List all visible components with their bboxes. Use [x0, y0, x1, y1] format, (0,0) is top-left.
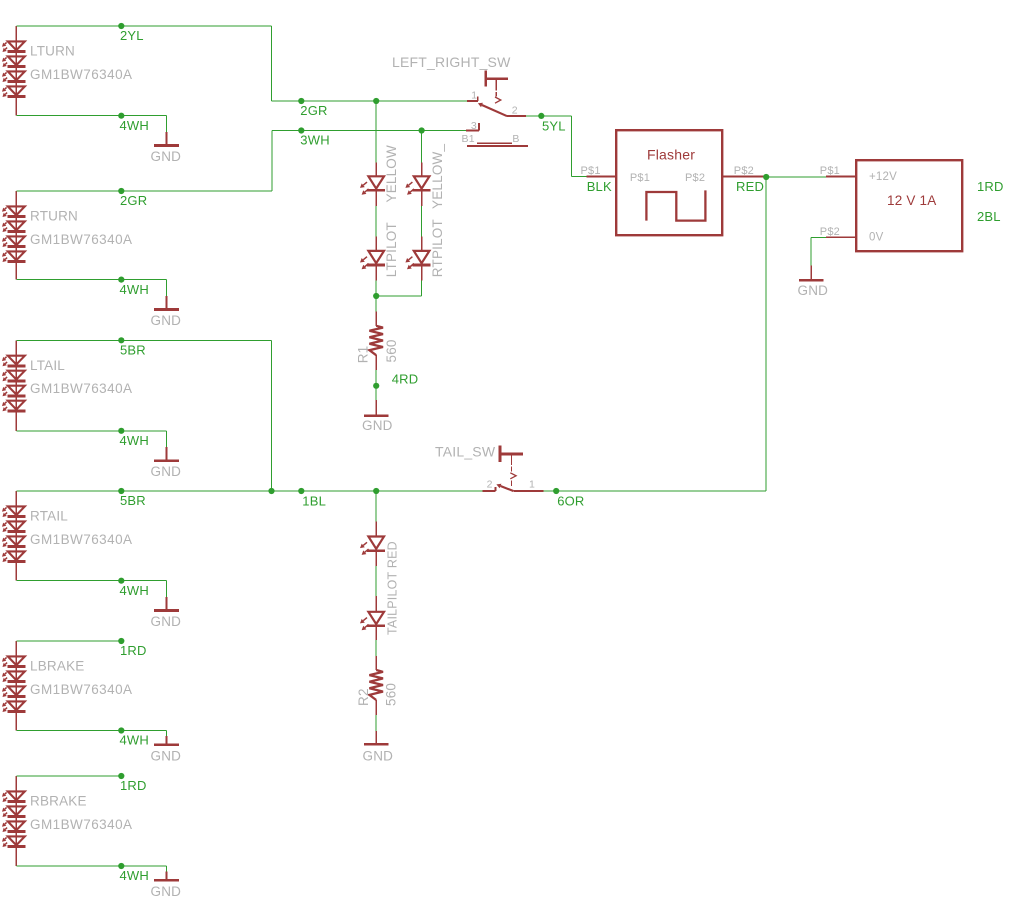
LTAIL LED 1	[8, 356, 25, 365]
wire supply P$2 to ground	[811, 236, 826, 238]
svg-text:4WH: 4WH	[120, 282, 150, 297]
TAIL_SW actuator chevron	[510, 473, 516, 479]
LEFT_RIGHT_SW actuator stem	[495, 79, 497, 91]
svg-text:GND: GND	[151, 313, 182, 328]
ground symbol GND at LBRAKE	[154, 743, 179, 746]
wire LTPILOT to junction	[375, 281, 377, 296]
TAIL_SW pin 2 contact tick	[495, 487, 497, 491]
LED module LTURN GM1BW76340A symbol pin line	[15, 26, 17, 116]
svg-text:P$1: P$1	[581, 165, 601, 177]
ground symbol GND below R2	[364, 743, 389, 746]
wire net 4WH bottom of LTURN	[16, 115, 166, 117]
svg-text:GND: GND	[151, 149, 182, 164]
wire 4WH drop to ground at RTURN	[166, 280, 168, 296]
svg-text:P$1: P$1	[630, 172, 650, 184]
svg-text:5YL: 5YL	[542, 118, 566, 133]
ground symbol GND at RTAIL	[154, 609, 179, 612]
LTURN LED 1	[8, 41, 25, 50]
svg-text:560: 560	[384, 339, 399, 362]
wire net 3WH horizontal to LEFT_RIGHT_SW pin 3	[272, 130, 466, 132]
wire riser LTAIL 5BR down to tail row	[271, 340, 273, 491]
node junction tailpilot column on tail row	[373, 488, 379, 494]
wire net 4WH bottom of RTURN	[16, 279, 166, 281]
svg-text:P$2: P$2	[685, 172, 705, 184]
pin R2 top	[375, 656, 377, 670]
svg-text:LBRAKE: LBRAKE	[30, 659, 84, 674]
node junction LTAIL riser on tail row	[268, 488, 274, 494]
TAIL_SW pin 1 stub	[513, 490, 543, 492]
node junction yellow pilot column top	[373, 98, 379, 104]
LEFT_RIGHT_SW actuator dash	[495, 92, 497, 96]
node 6OR label dot	[553, 488, 559, 494]
wire net 5YL from LEFT_RIGHT_SW pin 2	[526, 115, 571, 117]
wire riser LTURN 2YL to left-switch net	[271, 26, 273, 101]
node 4WH label dot at RBRAKE bottom	[118, 863, 124, 869]
RTAIL LED 3	[8, 536, 25, 545]
wire 5YL into Flasher P$1	[571, 176, 586, 178]
ground symbol GND at LTAIL	[154, 459, 179, 462]
LTURN LED 4	[8, 86, 25, 95]
wire ground drop at supply	[810, 237, 812, 265]
node 4RD label dot	[373, 383, 379, 389]
node 3WH label dot	[298, 127, 304, 133]
svg-text:GND: GND	[363, 748, 394, 763]
svg-text:3WH: 3WH	[300, 133, 330, 148]
wire 4WH drop to ground at LBRAKE	[166, 731, 168, 737]
svg-text:BLK: BLK	[587, 179, 612, 194]
RBRAKE LED 3	[8, 821, 25, 830]
wire yellow_ column from 3WH net down	[421, 131, 423, 163]
TAIL_SW pin 2 stub	[483, 490, 496, 492]
svg-text:R1: R1	[356, 346, 371, 364]
svg-text:1: 1	[529, 479, 535, 491]
svg-text:1RD: 1RD	[977, 179, 1004, 194]
LED module RBRAKE GM1BW76340A symbol pin line	[15, 776, 17, 866]
svg-text:GND: GND	[798, 283, 829, 298]
wire between YELLOW and LTPILOT	[375, 206, 377, 236]
LED LTPILOT (left pilot bottom)	[368, 251, 384, 263]
wire 4WH drop to ground at LTAIL	[166, 431, 168, 447]
node 2GR label dot	[298, 98, 304, 104]
svg-text:YELLOW: YELLOW	[384, 145, 399, 203]
svg-text:2GR: 2GR	[300, 103, 327, 118]
RTURN LED 4	[8, 251, 25, 260]
svg-text:1RD: 1RD	[120, 778, 147, 793]
pin below LED YELLOW	[375, 190, 377, 206]
svg-text:4WH: 4WH	[120, 733, 150, 748]
wire yellow column from 2GR net down	[375, 101, 377, 163]
RTURN LED 1	[8, 206, 25, 215]
svg-text:GND: GND	[362, 418, 393, 433]
ground symbol GND at RBRAKE	[154, 879, 179, 882]
ground symbol GND below R1	[364, 414, 389, 417]
ground pin LTURN	[166, 132, 168, 145]
svg-text:RBRAKE: RBRAKE	[30, 794, 87, 809]
ground pin RBRAKE	[166, 872, 168, 880]
ground pin LBRAKE	[166, 736, 168, 744]
wire net 2GR horizontal to LEFT_RIGHT_SW pin 1	[272, 100, 468, 102]
wire net 4WH bottom of LTAIL	[16, 430, 166, 432]
svg-text:1RD: 1RD	[120, 643, 147, 658]
svg-text:TAIL_SW: TAIL_SW	[435, 444, 496, 460]
pin below upper TAILPILOT LED	[375, 551, 377, 566]
ground pin RTAIL	[166, 597, 168, 610]
pin below LED RTPILOT	[421, 265, 423, 281]
pin R1 bottom	[375, 355, 377, 370]
LED module LBRAKE GM1BW76340A symbol pin line	[15, 641, 17, 731]
node 1BL label dot	[298, 488, 304, 494]
RTAIL LED 2	[8, 521, 25, 530]
node 5YL label dot	[538, 113, 544, 119]
Flasher square wave glyph	[646, 190, 705, 220]
LEFT_RIGHT_SW base line	[467, 145, 528, 147]
LEFT_RIGHT_SW pin 1 contact tick	[477, 97, 479, 101]
RTURN LED 3	[8, 236, 25, 245]
svg-text:2: 2	[512, 105, 518, 117]
pin of LED RTPILOT	[421, 236, 423, 250]
svg-text:4WH: 4WH	[120, 118, 150, 133]
svg-text:4RD: 4RD	[392, 371, 419, 386]
LEFT_RIGHT_SW actuator bar	[484, 71, 487, 87]
RBRAKE LED 4	[8, 836, 25, 845]
wire tail row down to TAILPILOT	[375, 491, 377, 521]
ground symbol GND at RTURN	[154, 308, 179, 311]
pin below LED YELLOW_	[421, 190, 423, 206]
wire net 4WH bottom of RTAIL	[16, 580, 166, 582]
wire riser RTURN to right-switch net	[271, 131, 273, 192]
svg-text:LEFT_RIGHT_SW: LEFT_RIGHT_SW	[392, 54, 511, 70]
svg-text:5BR: 5BR	[120, 493, 146, 508]
svg-text:2: 2	[487, 479, 493, 491]
ground symbol GND at LTURN	[154, 144, 179, 147]
node junction Flasher P$2 / RED	[763, 174, 769, 180]
LEFT_RIGHT_SW B1-B link line	[477, 142, 512, 144]
wire tail row net 1BL/5BR to TAIL_SW pin 2	[16, 490, 482, 492]
Flasher pin P$1 stub	[587, 176, 617, 178]
svg-text:GM1BW76340A: GM1BW76340A	[30, 682, 133, 697]
svg-text:GND: GND	[151, 614, 182, 629]
wire net 5BR top of LTAIL	[16, 339, 271, 341]
supply pin P$1 stub	[826, 176, 856, 178]
ground pin RTURN	[166, 296, 168, 309]
node junction yellow_ pilot column top	[419, 127, 425, 133]
LED TAILPILOT lower	[368, 612, 384, 624]
svg-text:Flasher: Flasher	[647, 147, 695, 163]
LBRAKE LED 1	[8, 656, 25, 665]
svg-text:3: 3	[471, 120, 477, 132]
wire TAILPILOT to R2	[375, 640, 377, 656]
LBRAKE LED 3	[8, 686, 25, 695]
svg-text:GM1BW76340A: GM1BW76340A	[30, 232, 133, 247]
node 4WH label dot at RTAIL bottom	[118, 578, 124, 584]
wire net 2YL top of LTURN	[16, 25, 271, 27]
wire net RED to supply P$1	[766, 176, 826, 178]
component Flasher box	[616, 130, 722, 235]
resistor R1 560	[369, 326, 383, 355]
ground pin below R2	[375, 731, 377, 744]
svg-text:GND: GND	[151, 749, 182, 764]
LED TAILPILOT upper (RED)	[368, 537, 384, 549]
svg-text:P$2: P$2	[734, 165, 754, 177]
svg-text:GND: GND	[151, 884, 182, 899]
svg-text:RTURN: RTURN	[30, 209, 78, 224]
LEFT_RIGHT_SW pin 3 stub	[466, 130, 479, 132]
LTURN LED 2	[8, 56, 25, 65]
svg-text:RTAIL: RTAIL	[30, 509, 68, 524]
wire net 2GR top of RTURN	[16, 190, 272, 192]
svg-text:YELLOW_: YELLOW_	[430, 144, 445, 209]
svg-text:2GR: 2GR	[120, 193, 147, 208]
wire 4WH drop to ground at LTURN	[166, 116, 168, 132]
svg-text:LTURN: LTURN	[30, 44, 75, 59]
TAIL_SW throw arm	[500, 486, 513, 491]
pin R2 bottom	[375, 700, 377, 715]
RBRAKE LED 2	[8, 806, 25, 815]
svg-text:GM1BW76340A: GM1BW76340A	[30, 381, 133, 396]
pin of LED TAILPILOT lower	[375, 596, 377, 611]
svg-text:4WH: 4WH	[120, 583, 150, 598]
svg-text:B1: B1	[462, 133, 475, 145]
LTAIL LED 2	[8, 371, 25, 380]
pin below lower TAILPILOT LED	[375, 626, 377, 640]
svg-text:0V: 0V	[869, 231, 884, 243]
ground pin at supply	[810, 266, 812, 280]
wire joining pilot columns	[376, 295, 421, 297]
TAIL_SW actuator stem	[511, 454, 513, 465]
wire net 6OR from TAIL_SW pin 1 to flasher riser	[544, 490, 767, 492]
LED RTPILOT (right pilot bottom)	[414, 251, 430, 263]
wire riser 6OR up to Flasher P$2 node	[765, 177, 767, 491]
svg-text:GM1BW76340A: GM1BW76340A	[30, 817, 133, 832]
RTAIL LED 1	[8, 506, 25, 515]
wire R2 to ground	[375, 715, 377, 731]
pin of LED YELLOW	[375, 163, 377, 176]
svg-text:GM1BW76340A: GM1BW76340A	[30, 532, 133, 547]
svg-text:RED: RED	[736, 179, 764, 194]
wire net 4WH bottom of RBRAKE	[16, 865, 166, 867]
wire net 1RD top of LBRAKE	[16, 640, 121, 642]
svg-text:GND: GND	[151, 464, 182, 479]
LBRAKE LED 4	[8, 701, 25, 710]
TAIL_SW actuator bar	[499, 445, 502, 462]
node 1RD label dot at LBRAKE top	[118, 638, 124, 644]
LED module RTURN GM1BW76340A symbol pin line	[15, 191, 17, 280]
ground pin below 4RD	[375, 400, 377, 415]
svg-text:LTPILOT: LTPILOT	[384, 222, 399, 277]
svg-text:LTAIL: LTAIL	[30, 358, 65, 373]
pin below LED LTPILOT	[375, 265, 377, 281]
pin of LED YELLOW_	[421, 163, 423, 176]
LBRAKE LED 2	[8, 671, 25, 680]
LTURN LED 3	[8, 71, 25, 80]
wire between TAILPILOT LEDs	[375, 566, 377, 596]
RTURN LED 2	[8, 221, 25, 230]
wire net 4WH bottom of LBRAKE	[16, 730, 166, 732]
ground symbol GND at supply	[799, 279, 824, 282]
LTAIL LED 4	[8, 401, 25, 410]
pin of LED LTPILOT	[375, 236, 377, 250]
TAIL_SW actuator dash	[511, 467, 513, 472]
svg-text:5BR: 5BR	[120, 343, 146, 358]
svg-text:1BL: 1BL	[302, 493, 326, 508]
wire 5YL riser down	[570, 116, 572, 177]
node 2YL label dot at LTURN top	[118, 23, 124, 29]
svg-text:1: 1	[471, 90, 477, 102]
RBRAKE LED 1	[8, 791, 25, 800]
resistor R2 560	[369, 670, 383, 700]
supply pin P$2 stub	[826, 236, 856, 238]
LEFT_RIGHT_SW throw arm	[482, 105, 507, 116]
svg-text:TAILPILOT RED: TAILPILOT RED	[386, 541, 400, 635]
node 2GR label dot at RTURN top	[118, 188, 124, 194]
node 5BR label dot at LTAIL top	[118, 337, 124, 343]
wire 4WH drop to ground at RBRAKE	[166, 866, 168, 872]
node 5BR label dot at RTAIL top	[118, 488, 124, 494]
LED YELLOW_ (right pilot top)	[414, 176, 430, 188]
LED YELLOW (left pilot top)	[368, 176, 384, 188]
svg-text:+12V: +12V	[869, 171, 897, 183]
LEFT_RIGHT_SW actuator chevron	[495, 97, 501, 103]
wire RTPILOT elbow down	[421, 281, 423, 296]
LEFT_RIGHT_SW pin 3 contact tick	[478, 123, 480, 131]
Flasher pin P$2 stub	[722, 176, 766, 178]
wire between YELLOW_ and RTPILOT	[421, 206, 423, 236]
TAIL_SW actuator dash 2	[511, 480, 513, 486]
svg-text:4WH: 4WH	[120, 868, 150, 883]
node 4WH label dot at LTAIL bottom	[118, 428, 124, 434]
svg-text:R2: R2	[356, 688, 371, 706]
LEFT_RIGHT_SW pin 2 stub	[507, 115, 527, 117]
LTAIL LED 3	[8, 386, 25, 395]
svg-text:RTPILOT: RTPILOT	[430, 219, 445, 277]
svg-text:560: 560	[384, 683, 399, 706]
ground pin LTAIL	[166, 447, 168, 460]
LEFT_RIGHT_SW pin 1 stub	[467, 100, 478, 102]
component 12V 1A supply box	[856, 160, 962, 251]
svg-text:12 V 1A: 12 V 1A	[887, 193, 936, 208]
node junction pilot columns to R1	[373, 293, 379, 299]
svg-text:2BL: 2BL	[977, 209, 1001, 224]
LED module RTAIL GM1BW76340A symbol pin line	[15, 491, 17, 581]
svg-text:2YL: 2YL	[120, 28, 144, 43]
svg-text:6OR: 6OR	[557, 493, 584, 508]
node 4WH label dot at LTURN bottom	[118, 113, 124, 119]
wire net 1RD top of RBRAKE	[16, 775, 121, 777]
wire junction down to R1	[375, 296, 377, 312]
svg-text:P$2: P$2	[820, 226, 840, 238]
svg-text:GM1BW76340A: GM1BW76340A	[30, 67, 133, 82]
svg-text:P$1: P$1	[820, 165, 840, 177]
svg-text:4WH: 4WH	[120, 433, 150, 448]
svg-text:B: B	[512, 133, 519, 145]
wire R1 to 4RD node	[375, 370, 377, 400]
node 1RD label dot at RBRAKE top	[118, 773, 124, 779]
LED module LTAIL GM1BW76340A symbol pin line	[15, 340, 17, 431]
node 4WH label dot at RTURN bottom	[118, 277, 124, 283]
pin of LED TAILPILOT upper	[375, 521, 377, 536]
node 4WH label dot at LBRAKE bottom	[118, 727, 124, 733]
RTAIL LED 4	[8, 551, 25, 560]
pin R1 top	[375, 312, 377, 326]
wire 4WH drop to ground at RTAIL	[166, 581, 168, 597]
